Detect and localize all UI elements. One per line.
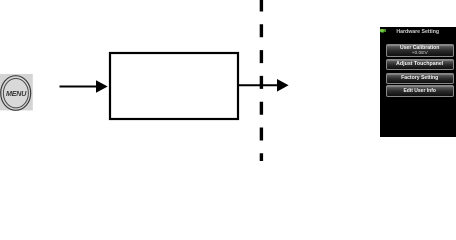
dashed boundary line (260, 0, 263, 161)
title: Hardware Setting (380, 29, 456, 35)
button: Adjust Touchpanel (386, 59, 454, 70)
process block (110, 53, 238, 119)
button: Factory Setting (386, 73, 454, 84)
svg-text:MENU: MENU (6, 89, 27, 98)
wire: arrow into block (60, 86, 98, 88)
LCD screenshot: Hardware Setting menu (380, 27, 456, 137)
green MENU badge (380, 29, 384, 32)
button: User Calibration (386, 44, 454, 57)
wire: arrow out of block (239, 84, 278, 86)
button: Edit User Info (386, 85, 454, 97)
diagram lines and shapes layer (0, 0, 456, 161)
